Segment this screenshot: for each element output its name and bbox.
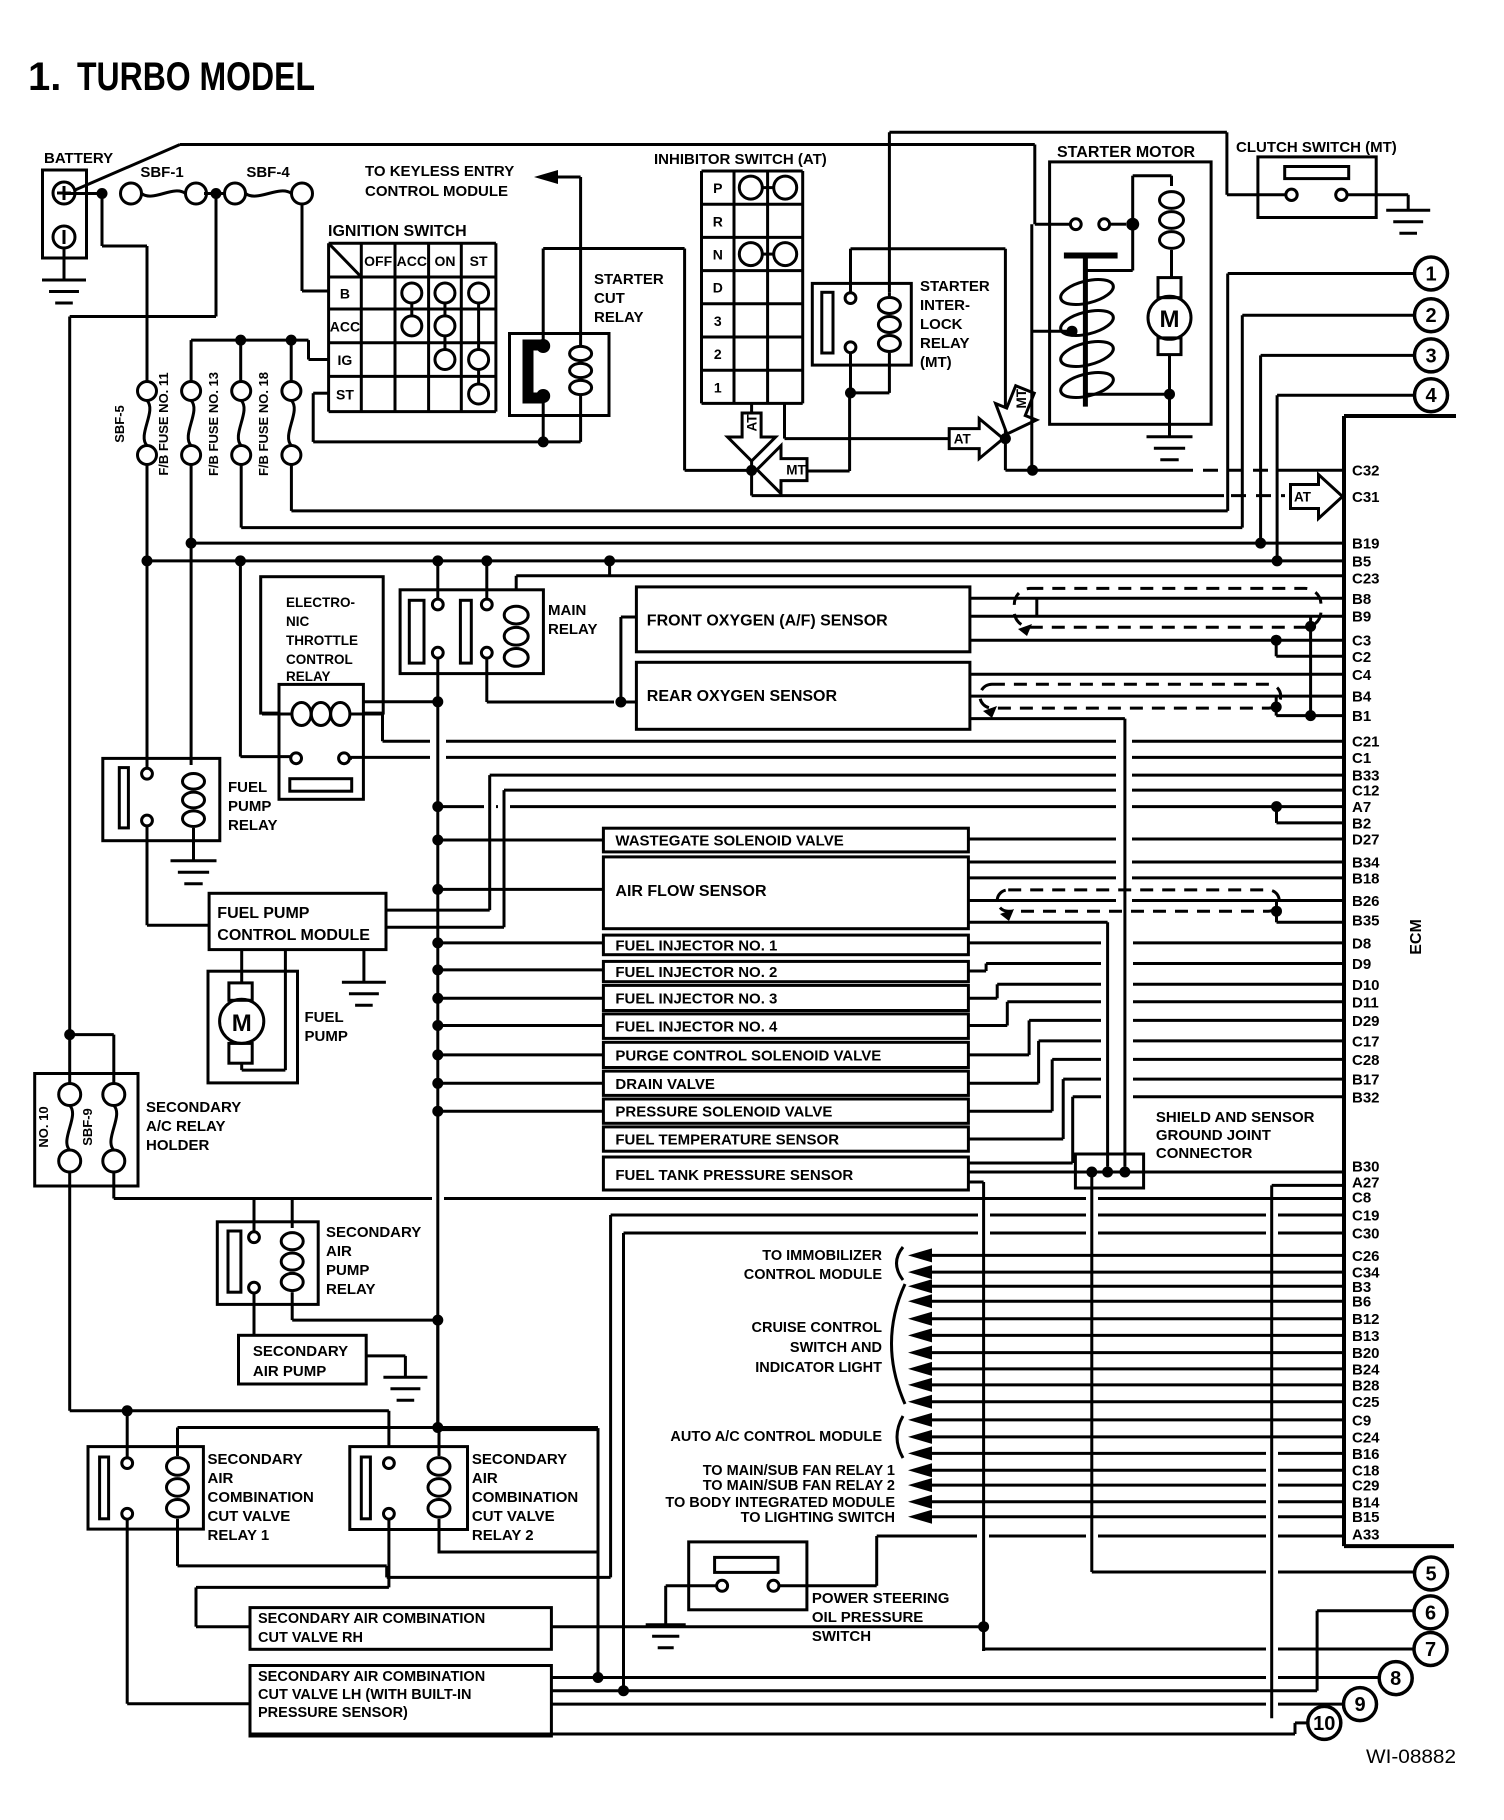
svg-text:TURBO MODEL: TURBO MODEL xyxy=(77,55,315,99)
wire to connector 7 (from fuel tank sensor / cut valve RH) xyxy=(984,1648,1266,1651)
node main relay output junction xyxy=(432,696,443,707)
cut valve relay 2 contact bar xyxy=(361,1457,370,1519)
fuel injector no.2 box xyxy=(603,961,968,981)
starter cut relay contact (solid bar) xyxy=(528,345,543,398)
wire battery positive to top bus (diagonal) xyxy=(75,145,180,191)
svg-text:TO LIGHTING SWITCH: TO LIGHTING SWITCH xyxy=(741,1510,895,1526)
wire air flow feed xyxy=(438,888,604,891)
wire secondary air pump to ground xyxy=(366,1354,405,1357)
svg-text:C12: C12 xyxy=(1352,783,1380,800)
wire SBF-1 to SBF-4 xyxy=(204,192,227,195)
wire fuel pump relay output to control module xyxy=(146,826,149,925)
svg-text:FUEL INJECTOR NO. 2: FUEL INJECTOR NO. 2 xyxy=(615,964,777,981)
svg-text:SWITCH AND: SWITCH AND xyxy=(790,1340,882,1356)
connector circle 3 xyxy=(1415,339,1448,372)
motor M (fuel pump) xyxy=(220,999,264,1043)
main relay coil xyxy=(504,606,528,624)
wire B9 (front oxygen) xyxy=(970,615,1344,618)
svg-text:STARTER: STARTER xyxy=(594,271,664,288)
wire rear oxygen feed junction xyxy=(615,697,626,708)
svg-text:SHIELD AND SENSOR: SHIELD AND SENSOR xyxy=(1156,1109,1315,1126)
wire C30 (to connector 6 line) xyxy=(624,1232,979,1235)
node F/B fuse no.18 feed xyxy=(286,335,297,346)
svg-text:FUEL TEMPERATURE SENSOR: FUEL TEMPERATURE SENSOR xyxy=(615,1132,839,1149)
battery xyxy=(43,170,87,258)
svg-text:SECONDARY: SECONDARY xyxy=(253,1343,348,1360)
svg-text:A/C RELAY: A/C RELAY xyxy=(146,1118,225,1135)
node pressure valve feed junction xyxy=(432,1106,443,1117)
secondary air pump relay contact bar xyxy=(228,1231,241,1292)
fuel temperature sensor box xyxy=(603,1127,968,1151)
wire B26 (air flow) xyxy=(968,899,1116,902)
motor M brush (bottom) xyxy=(1158,338,1181,355)
svg-text:THROTTLE: THROTTLE xyxy=(286,633,358,648)
shield (front oxygen sensor wires) xyxy=(1014,588,1321,627)
node SBF-1/SBF-4 junction xyxy=(211,188,222,199)
svg-text:D27: D27 xyxy=(1352,832,1380,849)
inhibitor switch contact circles P row xyxy=(739,176,762,199)
svg-text:ON: ON xyxy=(434,253,455,269)
svg-text:TO BODY INTEGRATED MODULE: TO BODY INTEGRATED MODULE xyxy=(665,1495,895,1511)
wire B5 (from SBF-5) xyxy=(146,465,149,561)
wire branch down to starter interlock relay coil xyxy=(888,132,891,292)
wire ignition ST row to starter cut relay xyxy=(313,392,328,395)
wire to connector 9 (cut valve LH) xyxy=(551,1703,1266,1706)
svg-text:CUT VALVE: CUT VALVE xyxy=(472,1508,555,1525)
wire C9 (module arrow) xyxy=(908,1413,932,1427)
wire B18 (air flow) xyxy=(968,876,1116,879)
svg-text:AIR: AIR xyxy=(326,1243,352,1260)
front oxygen (A/F) sensor box xyxy=(636,587,970,652)
svg-text:C29: C29 xyxy=(1352,1478,1380,1495)
motor M (starter) xyxy=(1148,296,1191,339)
wire SBF-4 down to ignition switch B row xyxy=(301,204,304,291)
node joint connector dot 3 xyxy=(1119,1167,1130,1178)
svg-text:D8: D8 xyxy=(1352,935,1371,952)
node starter motor pull-in tap xyxy=(1067,326,1078,337)
node bus / coil bus junction xyxy=(432,1422,443,1433)
wire C1 (ETC relay contact) xyxy=(350,757,353,760)
svg-text:POWER STEERING: POWER STEERING xyxy=(812,1590,950,1607)
svg-text:OIL PRESSURE: OIL PRESSURE xyxy=(812,1609,923,1626)
wire inhibitor right column to AT arrow (starter interlock) xyxy=(783,403,786,438)
ignition switch table xyxy=(327,243,330,411)
node A7 junction on bus xyxy=(432,801,443,812)
wire B14 (module arrow) xyxy=(908,1495,932,1509)
node bus / air pump relay coil junction xyxy=(432,1315,443,1326)
connector circle 8 xyxy=(1379,1662,1412,1695)
svg-text:CUT: CUT xyxy=(594,290,625,307)
svg-text:CLUTCH SWITCH (MT): CLUTCH SWITCH (MT) xyxy=(1236,139,1397,156)
cut valve relay 2 label box xyxy=(439,1430,598,1552)
svg-text:1: 1 xyxy=(714,379,722,395)
wire relay bus to line 6 (via label box edge) xyxy=(597,1552,600,1678)
wire C31 (AT) xyxy=(752,494,1224,497)
svg-text:CONTROL: CONTROL xyxy=(286,652,353,667)
wire D8 (injector 1) xyxy=(968,941,1101,944)
svg-text:MT: MT xyxy=(1014,388,1029,408)
wire air pump relay coil to bus xyxy=(291,1292,294,1320)
svg-text:CRUISE CONTROL: CRUISE CONTROL xyxy=(752,1320,883,1336)
svg-text:AUTO A/C CONTROL MODULE: AUTO A/C CONTROL MODULE xyxy=(670,1429,882,1445)
secondary air combination cut valve LH box xyxy=(250,1666,551,1737)
fuel pump relay pins xyxy=(142,768,153,779)
wire B8 (front oxygen) xyxy=(970,597,1344,600)
ground (fuel pump relay) xyxy=(171,859,217,862)
svg-text:D10: D10 xyxy=(1352,977,1380,994)
svg-text:NIC: NIC xyxy=(286,614,310,629)
svg-text:B18: B18 xyxy=(1352,870,1380,887)
inhibitor switch (AT) table xyxy=(700,171,703,403)
svg-text:C4: C4 xyxy=(1352,667,1372,684)
connector circle 4 xyxy=(1415,379,1448,412)
connector circle 6 xyxy=(1414,1596,1447,1629)
svg-text:F/B FUSE NO. 13: F/B FUSE NO. 13 xyxy=(206,372,221,476)
cut valve relay 2 coil xyxy=(428,1458,450,1476)
wire C3 (front oxygen) xyxy=(970,639,1344,642)
wire rear oxygen third output to ground joint connector xyxy=(970,717,1125,720)
wire fuel pump relay coil to ground xyxy=(192,828,195,861)
node B5 connector-4 junction xyxy=(1272,555,1283,566)
ETC relay contact bar xyxy=(290,779,352,792)
secondary A/C relay holder box xyxy=(35,1074,138,1187)
wire feed to secondary air pump relay contact xyxy=(253,1199,256,1233)
svg-text:PURGE CONTROL SOLENOID VALVE: PURGE CONTROL SOLENOID VALVE xyxy=(615,1047,881,1064)
svg-text:C26: C26 xyxy=(1352,1248,1380,1265)
wire J1 down to C31 line xyxy=(750,470,753,495)
node B1 junction xyxy=(1305,710,1316,721)
wire contact dot down to plunger xyxy=(1131,224,1134,270)
wire C29 (module arrow) xyxy=(908,1478,932,1492)
wire B2 branch xyxy=(1275,807,1278,823)
wire C2 branch xyxy=(1275,640,1278,656)
svg-text:ACC: ACC xyxy=(397,253,427,269)
node F/B fuse no.13 feed xyxy=(235,335,246,346)
wire A33 (power steering switch) xyxy=(877,1535,977,1538)
starter motor box xyxy=(1050,162,1212,424)
wire power steering switch to A33 xyxy=(779,1584,877,1587)
svg-text:TO IMMOBILIZER: TO IMMOBILIZER xyxy=(762,1248,882,1264)
svg-text:B34: B34 xyxy=(1352,855,1380,872)
svg-text:B4: B4 xyxy=(1352,689,1372,706)
svg-text:PRESSURE SOLENOID VALVE: PRESSURE SOLENOID VALVE xyxy=(615,1104,832,1121)
wire keyless arrow to starter cut relay coil xyxy=(579,177,582,341)
wire C12 (from fuel pump control module) xyxy=(504,789,1116,792)
svg-text:B15: B15 xyxy=(1352,1509,1380,1526)
wire battery negative to ground xyxy=(63,248,66,280)
svg-text:SECONDARY: SECONDARY xyxy=(146,1099,241,1116)
wire D10 (injector 3) xyxy=(968,997,997,1000)
connector circle 5 xyxy=(1415,1557,1448,1590)
wire relay 1 coil bottom step xyxy=(176,1519,179,1566)
arrow AT on C31 xyxy=(1291,475,1343,519)
fuel pump brush bottom xyxy=(229,1043,252,1063)
node purge valve feed junction xyxy=(432,1049,443,1060)
wire clutch switch left pin feed xyxy=(1227,193,1286,196)
arrow AT (inhibitor, AT model) xyxy=(728,413,776,461)
ignition switch contact circles xyxy=(402,283,422,303)
wire main relay bottom-right pin to oxygen sensors xyxy=(485,658,488,702)
node joint connector dot 2 xyxy=(1102,1167,1113,1178)
wire shield drain to B1 xyxy=(1305,621,1316,632)
wire B17 (fuel temperature sensor) xyxy=(968,1138,1063,1141)
cut valve relay 1 coil xyxy=(167,1458,189,1476)
svg-text:B6: B6 xyxy=(1352,1294,1371,1311)
starter interlock relay pins xyxy=(845,293,856,304)
fuel injector no.4 box xyxy=(603,1014,968,1039)
fuel pump relay coil xyxy=(183,773,205,789)
svg-text:SECONDARY: SECONDARY xyxy=(472,1451,567,1468)
svg-text:C2: C2 xyxy=(1352,649,1371,666)
svg-text:2: 2 xyxy=(1425,305,1436,327)
relay: starter inter-lock relay (MT) xyxy=(812,283,911,365)
svg-text:B20: B20 xyxy=(1352,1345,1380,1362)
svg-text:SECONDARY: SECONDARY xyxy=(208,1451,303,1468)
fuse F/B FUSE NO. 11 xyxy=(182,382,201,401)
svg-text:INDICATOR LIGHT: INDICATOR LIGHT xyxy=(755,1360,882,1376)
wire relay 2 output to cut valve RH xyxy=(387,1519,390,1587)
wire starter cut relay contact top to inhibitor bus xyxy=(542,249,545,347)
svg-text:7: 7 xyxy=(1425,1639,1436,1661)
svg-text:D9: D9 xyxy=(1352,956,1371,973)
svg-text:AIR: AIR xyxy=(208,1470,234,1487)
svg-text:C8: C8 xyxy=(1352,1190,1371,1207)
starter motor plunger (T bar and shaft) xyxy=(1064,253,1118,259)
svg-text:B30: B30 xyxy=(1352,1159,1380,1176)
svg-text:3: 3 xyxy=(1425,345,1436,367)
svg-text:PUMP: PUMP xyxy=(305,1028,348,1045)
svg-text:WASTEGATE SOLENOID VALVE: WASTEGATE SOLENOID VALVE xyxy=(615,833,843,850)
node B5 main relay coil junction xyxy=(604,555,615,566)
node relay bus / connector 8 line junction xyxy=(593,1672,604,1683)
svg-text:AIR PUMP: AIR PUMP xyxy=(253,1363,326,1380)
svg-text:RELAY: RELAY xyxy=(228,817,277,834)
svg-text:SBF-5: SBF-5 xyxy=(112,405,127,443)
fuel pump brush top xyxy=(229,983,252,1000)
svg-text:B28: B28 xyxy=(1352,1377,1380,1394)
wire C23 (main relay coil) xyxy=(608,561,611,576)
wire to connector 3 (from B19 line) xyxy=(1259,355,1262,543)
svg-text:AIR FLOW SENSOR: AIR FLOW SENSOR xyxy=(615,883,767,900)
svg-text:RELAY: RELAY xyxy=(286,669,331,684)
svg-text:INTER-: INTER- xyxy=(920,297,970,314)
shield and sensor ground joint connector xyxy=(1075,1154,1143,1188)
shield (air flow sensor wire) xyxy=(997,890,1279,911)
svg-text:FRONT OXYGEN (A/F) SENSOR: FRONT OXYGEN (A/F) SENSOR xyxy=(647,613,888,630)
node drain valve feed junction xyxy=(432,1078,443,1089)
svg-text:CONTROL MODULE: CONTROL MODULE xyxy=(217,927,370,944)
wire injector 2 feed xyxy=(438,968,604,971)
svg-text:C25: C25 xyxy=(1352,1394,1380,1411)
wire main bus to injector feeds xyxy=(436,702,439,1428)
svg-text:4: 4 xyxy=(1425,385,1437,407)
svg-text:1: 1 xyxy=(1425,264,1436,286)
svg-text:C30: C30 xyxy=(1352,1226,1380,1243)
svg-text:B13: B13 xyxy=(1352,1328,1380,1345)
svg-text:FUEL INJECTOR NO. 4: FUEL INJECTOR NO. 4 xyxy=(615,1019,778,1036)
node injector 4 feed junction xyxy=(432,1020,443,1031)
fuse NO. 10 xyxy=(68,1035,71,1085)
fuse SBF-1 xyxy=(121,183,142,204)
svg-text:M: M xyxy=(1160,306,1180,333)
wire B5 to ETC relay left pin xyxy=(239,561,242,757)
wire C28 (pressure valve) xyxy=(968,1110,1052,1113)
shield (rear oxygen sensor wire) xyxy=(980,684,1281,708)
svg-text:C23: C23 xyxy=(1352,571,1380,588)
wire to connector 5 (sensor ground) xyxy=(1092,1571,1266,1574)
wire starter cut relay bottom to ST line xyxy=(542,396,545,442)
svg-text:C3: C3 xyxy=(1352,633,1371,650)
wire B30 / sensor ground line xyxy=(968,1171,1344,1174)
connector circle 1 xyxy=(1415,257,1448,290)
svg-text:B19: B19 xyxy=(1352,536,1380,553)
secondary air pump relay coil xyxy=(281,1233,303,1250)
wire FPCM to fuel pump xyxy=(240,950,243,983)
svg-text:CUT VALVE: CUT VALVE xyxy=(208,1508,291,1525)
svg-text:B8: B8 xyxy=(1352,591,1371,608)
wire cut valve relay coils bus xyxy=(178,1426,599,1429)
starter interlock relay coil xyxy=(878,298,900,314)
svg-text:FUEL INJECTOR NO. 1: FUEL INJECTOR NO. 1 xyxy=(615,937,777,954)
node air flow feed junction xyxy=(432,884,443,895)
wire fuel tank sensor output to connector 7 line xyxy=(968,1181,983,1184)
svg-text:6: 6 xyxy=(1425,1602,1436,1624)
wire B16 (module arrow) xyxy=(908,1446,932,1460)
wire power steering switch to ground xyxy=(666,1584,717,1587)
node injector 3 feed junction xyxy=(432,993,443,1004)
svg-text:C24: C24 xyxy=(1352,1429,1380,1446)
wire B4 (rear oxygen) xyxy=(970,695,1344,698)
svg-text:AT: AT xyxy=(954,432,972,447)
wire purge valve feed xyxy=(438,1053,604,1056)
svg-text:LOCK: LOCK xyxy=(920,316,963,333)
wire B15 (module arrow) xyxy=(908,1510,932,1524)
node RH / C19 junction xyxy=(978,1621,989,1632)
wire B19/F-B11 to fuel pump relay coil xyxy=(190,543,193,765)
wire top bus B: battery to starter motor feed (y=144.5) xyxy=(180,143,1035,146)
node B19 fuse junction xyxy=(186,538,197,549)
wire A27 (to cut valve LH) xyxy=(1272,1184,1344,1187)
svg-text:AT: AT xyxy=(745,414,760,432)
svg-text:SECONDARY AIR COMBINATION: SECONDARY AIR COMBINATION xyxy=(258,1669,485,1685)
ground (battery) xyxy=(42,279,86,282)
node interlock bottom junction xyxy=(845,387,856,398)
svg-text:AT: AT xyxy=(1294,490,1312,505)
svg-text:FUEL: FUEL xyxy=(305,1009,344,1026)
wire D11 (injector 4) xyxy=(968,1024,1007,1027)
starter motor contact pins xyxy=(1070,219,1081,230)
svg-text:ST: ST xyxy=(336,387,354,403)
fuse SBF-5 xyxy=(138,382,157,401)
wire air pump relay output to air pump xyxy=(253,1293,256,1335)
node J2 AT/MT junction xyxy=(1000,433,1011,444)
wire joint connector drain down xyxy=(1090,1172,1093,1572)
wire drain valve feed xyxy=(438,1082,604,1085)
wire C34 (module arrow) xyxy=(908,1265,932,1279)
node B5 main relay pin junctions xyxy=(432,555,443,566)
svg-text:FUEL TANK PRESSURE SENSOR: FUEL TANK PRESSURE SENSOR xyxy=(615,1167,853,1184)
svg-text:B1: B1 xyxy=(1352,708,1371,725)
cut valve relay 1 contact bar xyxy=(100,1457,109,1519)
wire ignition IG feed line to F/B fuses xyxy=(191,339,308,342)
inhibitor switch contact circles N row xyxy=(739,243,762,266)
node joint connector dot 1 xyxy=(1086,1167,1097,1178)
svg-text:B: B xyxy=(340,286,350,302)
node left bus to SBF-9 junction xyxy=(64,1029,75,1040)
wire D29 (purge valve) xyxy=(968,1053,1029,1056)
svg-text:9: 9 xyxy=(1354,1694,1365,1716)
relay: starter cut relay xyxy=(510,334,610,416)
svg-text:C28: C28 xyxy=(1352,1052,1380,1069)
wire C24 (module arrow) xyxy=(908,1430,932,1444)
wire inhibitor left column down to AT arrow xyxy=(750,403,753,470)
wire NO.10 fuse down the left bus xyxy=(68,1172,71,1411)
wire cut valve RH output xyxy=(551,1625,983,1628)
clutch switch (MT) xyxy=(1258,157,1376,218)
svg-text:HOLDER: HOLDER xyxy=(146,1137,210,1154)
wire junction to left bus xyxy=(215,194,218,317)
wire B3 (module arrow) xyxy=(908,1279,932,1293)
node starter cut relay bottom junction xyxy=(538,436,549,447)
svg-text:CUT VALVE LH (WITH BUILT-IN: CUT VALVE LH (WITH BUILT-IN xyxy=(258,1687,471,1703)
svg-text:COMBINATION: COMBINATION xyxy=(208,1489,314,1506)
svg-text:FUEL: FUEL xyxy=(228,779,267,796)
svg-text:WI-08882: WI-08882 xyxy=(1366,1747,1456,1768)
svg-text:RELAY 1: RELAY 1 xyxy=(208,1527,270,1544)
wire B6 (module arrow) xyxy=(908,1294,932,1308)
svg-text:B17: B17 xyxy=(1352,1072,1380,1089)
svg-text:RELAY: RELAY xyxy=(920,335,969,352)
svg-text:RELAY: RELAY xyxy=(326,1281,375,1298)
relay: main relay xyxy=(400,590,543,674)
wire interlock top pin to MT arrow (J2) xyxy=(849,249,852,293)
svg-text:ECM: ECM xyxy=(1408,919,1425,955)
wire FPCM output 1 to B33 xyxy=(386,909,490,912)
svg-text:TO KEYLESS ENTRY: TO KEYLESS ENTRY xyxy=(365,163,514,180)
node A7/B2 branch xyxy=(1271,801,1282,812)
fuel pump control module xyxy=(209,893,386,949)
svg-text:P: P xyxy=(713,180,722,196)
svg-text:M: M xyxy=(232,1010,252,1037)
wire C25 (module arrow) xyxy=(908,1395,932,1409)
power steering oil pressure switch box xyxy=(689,1542,807,1610)
svg-text:C21: C21 xyxy=(1352,734,1380,751)
wire C21 (ETC relay coil) xyxy=(383,740,431,743)
fuel injector no.3 box xyxy=(603,985,968,1010)
wire B33 (from fuel pump control module) xyxy=(490,774,1116,777)
relay: secondary air pump relay xyxy=(217,1222,318,1305)
wire pull-in tap to feed bus xyxy=(1032,330,1072,333)
svg-text:SECONDARY: SECONDARY xyxy=(326,1224,421,1241)
wire ETC coil to C21 xyxy=(381,714,384,741)
svg-text:C31: C31 xyxy=(1352,489,1380,506)
ground (secondary air pump) xyxy=(383,1376,427,1379)
wire pressure valve feed xyxy=(438,1110,604,1113)
svg-text:SBF-4: SBF-4 xyxy=(246,164,290,181)
ground (starter motor) xyxy=(1147,435,1193,438)
wire C17 (drain valve) xyxy=(968,1082,1038,1085)
wire FPCM ground lead xyxy=(362,950,365,983)
svg-text:CONTROL MODULE: CONTROL MODULE xyxy=(365,183,508,200)
svg-text:GROUND JOINT: GROUND JOINT xyxy=(1156,1127,1271,1144)
wire feed into starter motor contact xyxy=(1035,223,1071,226)
svg-text:N: N xyxy=(713,247,723,263)
wire B13 (module arrow) xyxy=(908,1328,932,1342)
wire C26 (module arrow) xyxy=(908,1248,932,1262)
svg-text:C9: C9 xyxy=(1352,1412,1371,1429)
wire SBF-9 to C8 line xyxy=(112,1172,115,1199)
wires main relay top pins to B5 xyxy=(436,561,439,599)
